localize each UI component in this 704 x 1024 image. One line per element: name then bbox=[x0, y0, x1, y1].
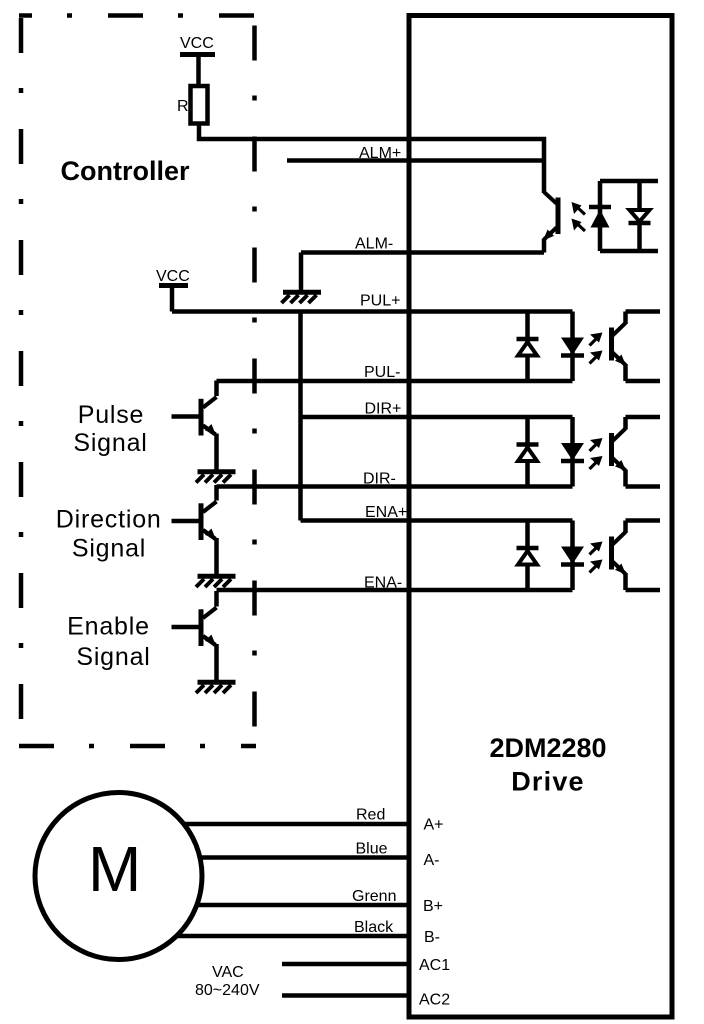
svg-text:Enable: Enable bbox=[67, 613, 150, 641]
svg-text:80~240V: 80~240V bbox=[195, 982, 260, 999]
svg-text:VAC: VAC bbox=[212, 964, 244, 981]
svg-text:Drive: Drive bbox=[511, 767, 585, 797]
svg-text:ALM-: ALM- bbox=[355, 236, 393, 253]
svg-text:Pulse: Pulse bbox=[78, 401, 145, 429]
svg-text:PUL+: PUL+ bbox=[360, 293, 400, 310]
svg-text:Red: Red bbox=[356, 807, 385, 824]
svg-text:Signal: Signal bbox=[76, 643, 150, 671]
svg-text:PUL-: PUL- bbox=[364, 364, 400, 381]
svg-text:AC1: AC1 bbox=[419, 957, 450, 974]
svg-text:B-: B- bbox=[424, 929, 440, 946]
svg-text:B+: B+ bbox=[423, 898, 443, 915]
svg-text:Signal: Signal bbox=[72, 535, 146, 563]
svg-text:A+: A+ bbox=[424, 817, 444, 834]
svg-text:Controller: Controller bbox=[60, 156, 189, 186]
svg-text:Black: Black bbox=[354, 919, 394, 936]
svg-text:A-: A- bbox=[424, 852, 440, 869]
svg-text:Signal: Signal bbox=[73, 429, 147, 457]
svg-text:R: R bbox=[177, 98, 189, 115]
svg-text:AC2: AC2 bbox=[419, 992, 450, 1009]
svg-text:Direction: Direction bbox=[56, 506, 162, 534]
svg-text:Grenn: Grenn bbox=[352, 888, 396, 905]
svg-text:ALM+: ALM+ bbox=[359, 145, 401, 162]
svg-text:VCC: VCC bbox=[180, 35, 214, 52]
svg-text:M: M bbox=[88, 833, 141, 905]
svg-text:2DM2280: 2DM2280 bbox=[489, 733, 606, 763]
svg-text:ENA-: ENA- bbox=[364, 575, 402, 592]
svg-text:DIR+: DIR+ bbox=[365, 401, 402, 418]
svg-text:ENA+: ENA+ bbox=[365, 504, 407, 521]
svg-text:VCC: VCC bbox=[156, 268, 190, 285]
svg-text:Blue: Blue bbox=[356, 841, 388, 858]
svg-text:DIR-: DIR- bbox=[363, 471, 396, 488]
